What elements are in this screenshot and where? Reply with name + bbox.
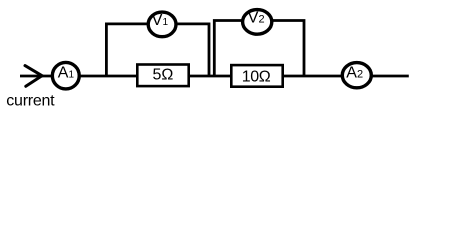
wire: main horizontal line <box>20 75 409 78</box>
current direction arrow <box>25 66 42 87</box>
wire: parallel branch loop 2 (across 10 ohm resistor) <box>214 21 304 78</box>
resistor R1 box <box>137 65 188 87</box>
voltmeter V1 <box>148 12 176 37</box>
svg-text:10Ω: 10Ω <box>242 69 271 86</box>
ammeter A2 <box>342 63 371 88</box>
voltmeter V2 <box>243 10 272 35</box>
svg-text:current: current <box>6 93 55 110</box>
ammeter A1 <box>52 62 79 89</box>
wire: parallel branch loop 1 (across 5 ohm resistor) <box>106 24 209 77</box>
svg-text:5Ω: 5Ω <box>153 67 174 84</box>
resistor R2 box <box>231 65 282 87</box>
